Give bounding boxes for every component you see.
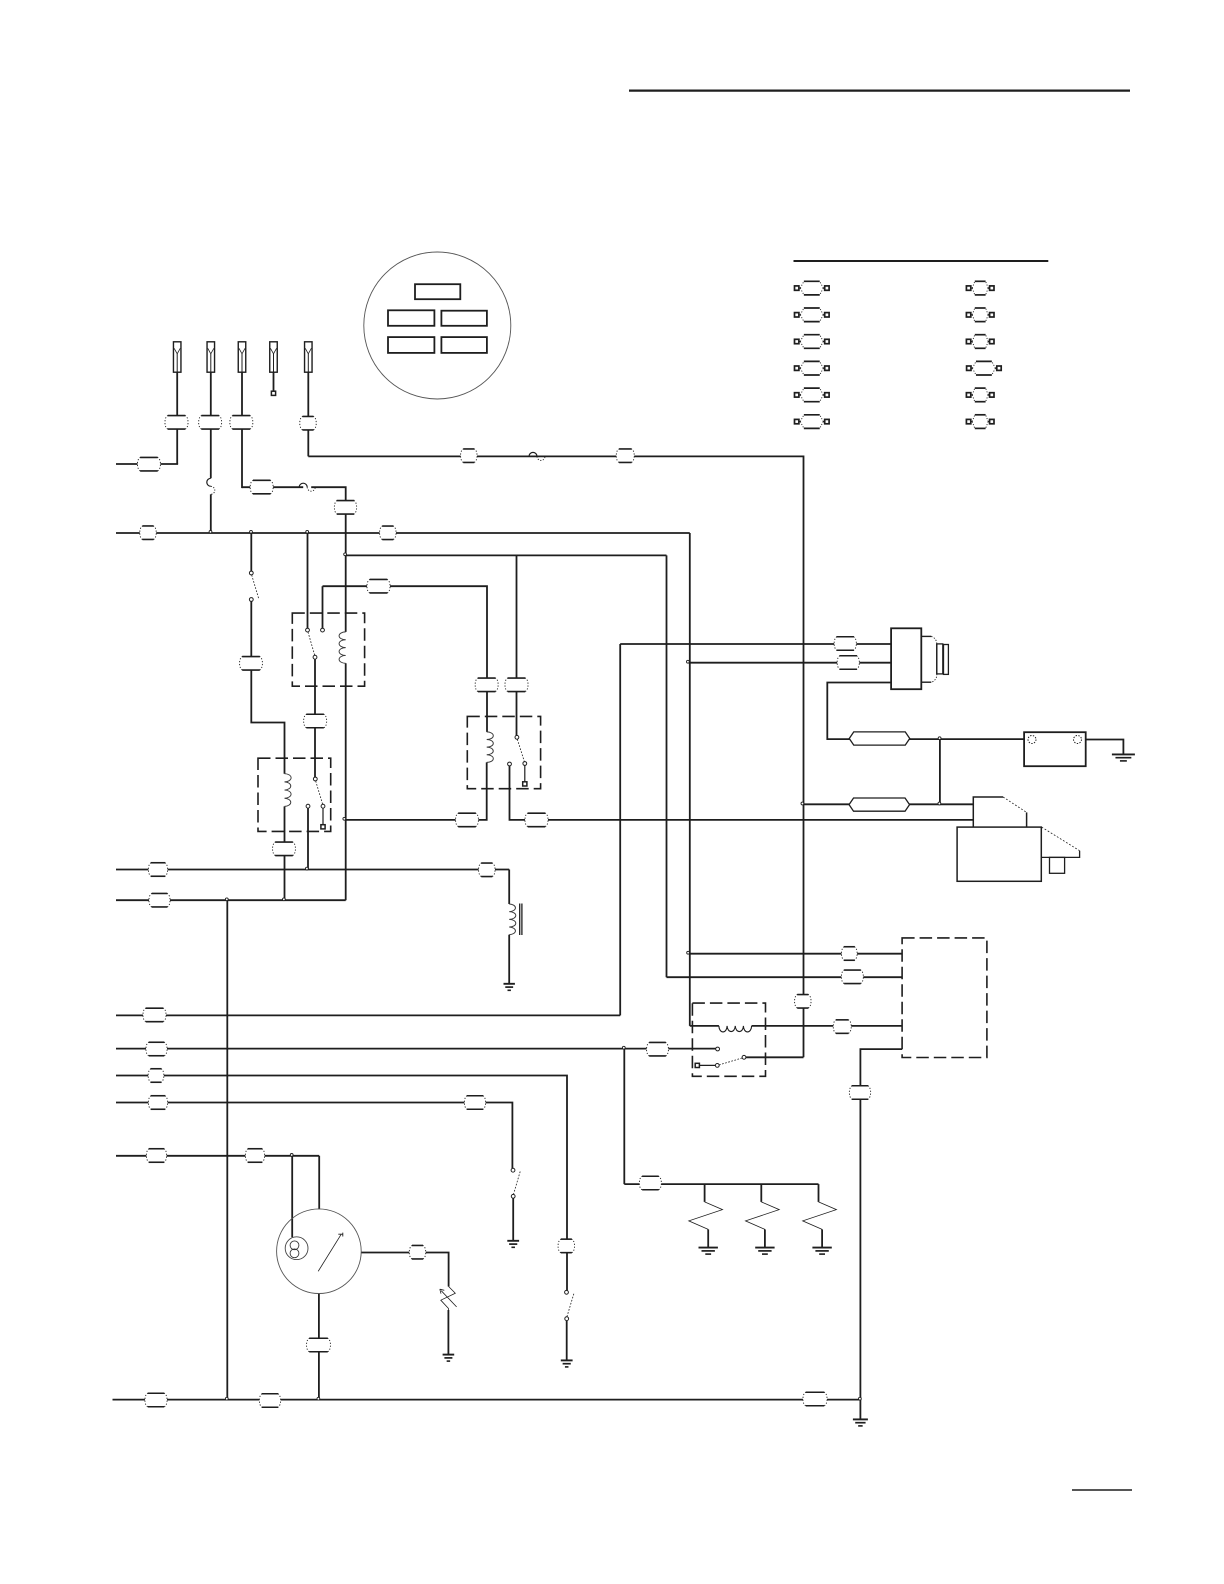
connector on harness 4 right: [464, 1096, 485, 1109]
wire lamp feed: [291, 1156, 293, 1237]
connector on starter field wire: [837, 656, 859, 669]
relay K2 box: [258, 758, 331, 831]
relay K1 arm: [308, 632, 315, 655]
voltage regulator box: [902, 938, 987, 1058]
table connector right row 1: [972, 281, 988, 295]
instrument cluster gauge bot-right: [441, 337, 487, 353]
wire bus B to K3 common: [516, 555, 518, 735]
connector on key ground wire: [307, 1338, 331, 1352]
wire harness 4 horizontal: [116, 1103, 512, 1169]
relay K4 arm: [719, 1058, 742, 1065]
connector on bus C right: [479, 863, 496, 877]
connector on harness 1 left: [143, 1008, 166, 1022]
connector on bus E second: [259, 1394, 280, 1407]
connector on K1 output: [304, 714, 327, 728]
wire ignition coil to ground: [508, 935, 510, 984]
junction at 292.0,1155.4: [290, 1154, 293, 1157]
wire K3 coil out: [345, 762, 487, 820]
connector on K1 coil feed: [334, 501, 356, 514]
connector on K2 coil output: [273, 842, 296, 856]
primary coil of ignition coil T1: [509, 904, 516, 935]
wire K2 coil out: [284, 806, 286, 900]
wire S3 to ground: [566, 1321, 568, 1361]
battery box: [1024, 732, 1086, 766]
wire bus A to cutoff switch: [250, 533, 252, 571]
relay K2 moving contact: [321, 804, 325, 808]
wire fuse F5 lead: [307, 372, 309, 456]
relay K4 moving contact: [715, 1064, 719, 1068]
junction at 939.7,804.0: [938, 802, 941, 805]
switch S2 arm: [513, 1170, 520, 1195]
wire battery junction drop: [939, 739, 941, 804]
wire bus A horizontal: [116, 532, 690, 534]
connector on F5 bus: [461, 449, 478, 463]
connector below fuse F3: [230, 416, 253, 430]
wire bus E end to ground: [859, 1400, 861, 1420]
wire harness 5 horizontal: [116, 1155, 319, 1157]
relay K3 common contact: [515, 735, 519, 739]
wire S2 to ground: [512, 1198, 514, 1240]
wire K2 contact out: [307, 808, 309, 869]
wire K1 switch out to K2 common: [314, 659, 316, 777]
table connector right row 5: [972, 388, 988, 402]
wire battery feed to F1: [116, 463, 178, 465]
connector on bus A left: [140, 526, 157, 540]
fuse F1: [173, 342, 181, 372]
relay K3 moving contact: [523, 762, 527, 766]
junction at 284.2,899.8: [283, 898, 286, 901]
junction at 227.1,899.8: [225, 898, 228, 901]
connector on F1 feed wire: [137, 457, 160, 471]
wire bus E horizontal: [113, 1399, 861, 1401]
wire harness 1 horizontal: [116, 1014, 620, 1016]
relay K2 arm: [316, 781, 323, 804]
table connector right row 2: [972, 308, 988, 322]
wire F5 battery bus, vertical drop: [803, 456, 805, 1058]
starter mounting bracket: [1042, 827, 1080, 851]
wire fuse F2 lead upper: [210, 372, 212, 478]
relay K4 common contact: [742, 1055, 746, 1059]
wire bus A vertical drop: [689, 533, 691, 1026]
key switch circle: [277, 1209, 362, 1294]
wire starter loop vertical: [619, 644, 621, 1015]
coil of relay K3: [487, 732, 494, 763]
relay K3 box: [467, 716, 540, 788]
connector on key output: [409, 1246, 426, 1260]
page footer rule: [1072, 1489, 1132, 1491]
junction at 307.2,869.1: [306, 867, 309, 870]
wire K1 coil out: [345, 663, 347, 900]
connector on K3 output wire: [525, 813, 548, 827]
connector on harness 4 left: [148, 1096, 167, 1109]
wire F3 to relay K1 coil, right part: [311, 487, 346, 632]
table connector left row 5: [800, 388, 823, 402]
fuse F3: [238, 342, 246, 372]
wire starter field: [689, 662, 892, 664]
motor M1 body: [891, 628, 921, 689]
connector on F5 bus right: [616, 449, 634, 463]
starter foot: [1050, 857, 1065, 873]
key switch lever: [318, 1234, 341, 1271]
wire K1 aux to K3 coil: [323, 586, 488, 732]
relay K1 common contact: [306, 628, 310, 632]
table connector left row 6: [800, 415, 823, 429]
wire key switch feed: [318, 1156, 320, 1209]
wire bus B vertical drop: [666, 555, 668, 977]
wire interconnect drop: [226, 900, 228, 1399]
wire K3 contact to starter solenoid: [510, 766, 974, 820]
switch S1 contact top: [249, 571, 253, 575]
instrument cluster circle: [364, 252, 511, 399]
junction at 307.5,532.3: [306, 530, 309, 533]
wire fuse F1 lead: [176, 372, 178, 464]
connector on harness 2 right: [647, 1043, 669, 1057]
wire rheostat to ground: [447, 1310, 449, 1354]
connector on harness 2 left: [146, 1042, 167, 1056]
connector above K3 coil: [475, 678, 498, 692]
wire F5 battery bus, horizontal: [308, 455, 803, 457]
relay K4 arm terminal: [699, 1064, 715, 1066]
relay K3 aux contact: [508, 762, 512, 766]
fusible link on solenoid wire: [849, 798, 910, 811]
wire cutoff switch to K2 coil: [251, 601, 284, 773]
connector on battery bus drop: [795, 995, 811, 1009]
resistor R1 zigzag: [689, 1202, 723, 1230]
rheostat R4 arrow: [440, 1289, 457, 1307]
ground switch S2: [507, 1240, 519, 1242]
junction at 860.2,1399.2: [859, 1397, 862, 1400]
relay K1 moving contact: [313, 655, 317, 659]
ground bus E: [853, 1418, 868, 1420]
ground resistor R1: [699, 1247, 718, 1249]
motor M1 bell housing: [921, 635, 931, 637]
relay K2 common contact: [313, 777, 317, 781]
table connector left row 1: [800, 281, 823, 295]
wire F3 to relay K1 coil, left part: [242, 486, 303, 488]
wire battery bus to relay K4 common: [746, 1056, 804, 1058]
splice on F2 lead: [207, 478, 211, 486]
battery positive terminal: [1028, 736, 1036, 744]
table connector left row 2: [800, 308, 823, 322]
junction at 802.7,804.0: [801, 802, 804, 805]
relay K2 arm terminal: [322, 808, 324, 825]
resistor R1 lead: [704, 1184, 706, 1202]
connector on S1 output: [240, 657, 263, 671]
relay K3 arm terminal: [524, 765, 526, 782]
connector on bus E right: [803, 1392, 827, 1406]
fuse F2: [207, 342, 215, 372]
fuse F5: [305, 342, 313, 372]
connector on regulator output: [849, 1086, 870, 1099]
motor M1 shaft step: [937, 644, 943, 674]
wire fuse F3 lead: [241, 372, 243, 488]
connector on regulator wire 1: [841, 947, 857, 960]
switch S3 arm: [567, 1292, 574, 1317]
wire regulator to harness: [860, 1049, 902, 1400]
connector on K1 aux wire: [367, 580, 390, 594]
junction at 624.1,1048.2: [622, 1046, 625, 1049]
wire key switch output: [361, 1253, 448, 1287]
connector on resistor rail: [639, 1176, 661, 1190]
instrument cluster gauge mid-right: [441, 311, 487, 326]
relay K4 box: [692, 1003, 765, 1076]
ground switch S3: [561, 1359, 573, 1361]
connector above K3 common: [505, 678, 528, 692]
ground battery negative: [1112, 753, 1135, 755]
junction at 688.4,953.2: [687, 951, 690, 954]
connector on starter armature wire: [834, 637, 856, 650]
relay K4 input contact: [716, 1047, 720, 1051]
wire fuse F2 lead lower: [210, 494, 212, 533]
resistor R3 to ground: [821, 1229, 823, 1247]
connector on bus D left: [149, 894, 170, 908]
junction at 210.8,532.3: [209, 530, 212, 533]
resistor R2 lead: [760, 1184, 762, 1202]
connector on harness 5 mid: [245, 1149, 264, 1162]
wire bus C drop to ignition coil: [508, 870, 510, 905]
table connector right row 4: [972, 361, 995, 375]
connector on K4 coil wire: [833, 1020, 851, 1034]
motor M1 shaft end: [944, 645, 949, 675]
connector on harness 3 left: [148, 1069, 164, 1082]
connector on harness 5 left: [146, 1149, 166, 1162]
rheostat R4 zigzag: [441, 1287, 456, 1311]
instrument cluster gauge top: [415, 284, 460, 299]
fusible link on battery wire: [849, 732, 910, 745]
connector table header rule: [794, 260, 1049, 262]
indicator lamp lower element: [290, 1249, 299, 1258]
resistor R2 to ground: [764, 1229, 766, 1247]
wire resistor feed drop: [623, 1049, 625, 1185]
connector on K3 coil feed wire: [456, 813, 479, 827]
instrument cluster gauge bot-left: [388, 337, 434, 353]
indicator lamp outer: [285, 1237, 308, 1260]
wire relay K4 coil to regulator: [752, 1025, 903, 1027]
wire harness 2 horizontal: [116, 1048, 716, 1050]
connector on harness 3 drop: [558, 1239, 575, 1253]
connector on bus A mid: [380, 526, 397, 540]
wire battery to ground: [1086, 740, 1124, 755]
wire bus B horizontal: [346, 554, 667, 556]
junction at 227.1,1399.2: [225, 1397, 228, 1400]
junction at 688.2,662.2: [687, 660, 690, 663]
wire starter to battery: [827, 683, 1024, 740]
wire starter armature upper: [620, 643, 891, 645]
table connector left row 3: [800, 335, 823, 349]
starter motor body: [957, 827, 1041, 881]
wire bus C horizontal: [116, 869, 509, 871]
junction at 344.6,819.3: [343, 817, 346, 820]
switch S2 pivot: [511, 1194, 515, 1198]
instrument cluster gauge mid-left: [388, 310, 434, 326]
starter solenoid: [973, 797, 1003, 827]
indicator lamp upper element: [290, 1241, 299, 1250]
junction at 318.7,1399.2: [317, 1397, 320, 1400]
wire key switch to bus E: [318, 1294, 320, 1400]
fuse F4: [270, 342, 278, 372]
ground resistor R3: [812, 1247, 831, 1249]
splice on F5 bus: [529, 452, 537, 456]
resistor R3 lead: [818, 1184, 820, 1202]
wire harness 3 horizontal: [116, 1076, 567, 1291]
connector below fuse F2: [199, 416, 222, 430]
ground ignition coil: [504, 983, 515, 985]
connector on F3 wire: [250, 480, 273, 494]
connector on bus C left: [148, 863, 167, 876]
resistor R1 to ground: [707, 1229, 709, 1247]
switch S3 contact top: [565, 1290, 569, 1294]
splice on F3 wire: [299, 483, 307, 487]
switch S2 contact top: [511, 1168, 515, 1172]
resistor R3 zigzag: [803, 1202, 837, 1230]
table connector left row 4: [800, 361, 823, 375]
relay K1 box: [292, 613, 364, 686]
switch S3 pivot: [565, 1317, 569, 1321]
coil of relay K2: [285, 774, 292, 807]
junction at 251.3,532.3: [250, 530, 253, 533]
wire bus B to regulator: [667, 976, 903, 978]
relay K1 aux contact: [321, 628, 325, 632]
ground rheostat: [443, 1354, 455, 1356]
key switch lever arrowhead: [338, 1233, 343, 1237]
relay K3 arm: [517, 739, 524, 762]
terminal square on F4 lead: [271, 391, 275, 395]
switch S1 contact bottom: [249, 598, 253, 602]
coil of relay K1: [339, 632, 346, 663]
wire bus A branch to regulator: [689, 953, 902, 955]
battery negative terminal: [1074, 736, 1082, 744]
wire relay K4 coil feed: [690, 1025, 719, 1027]
title rule: [629, 89, 1130, 91]
connector on regulator wire 2: [841, 970, 863, 984]
junction at 939.9,738.7: [938, 737, 941, 740]
resistor R2 zigzag: [746, 1202, 780, 1230]
wire K1 aux contact lead: [322, 586, 324, 628]
wire solenoid battery feed: [803, 803, 973, 805]
table connector right row 6: [972, 415, 988, 429]
wire fuse F4 lead: [273, 372, 275, 392]
connector below fuse F5: [300, 416, 317, 430]
connector below fuse F1: [165, 416, 188, 430]
relay K2 aux contact: [306, 804, 310, 808]
junction at 345.4,554.8: [344, 553, 347, 556]
table connector right row 3: [972, 335, 988, 349]
wire resistor rail: [624, 1183, 818, 1185]
connector on bus E left: [145, 1393, 167, 1407]
coil of relay K4: [719, 1026, 752, 1032]
core bars of ignition coil T1: [519, 904, 521, 936]
wire bus A to K1 switch: [307, 533, 309, 628]
switch S1 arm: [252, 575, 259, 598]
wire bus D horizontal: [116, 899, 346, 901]
ground resistor R2: [755, 1247, 774, 1249]
